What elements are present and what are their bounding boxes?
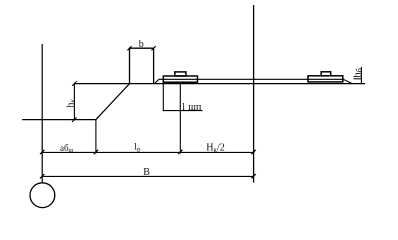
column (pole) (130, 48, 154, 83)
left slope into rail seat (154, 79, 159, 84)
svg-text:B: B (143, 167, 150, 178)
right reference vertical (360, 67, 362, 84)
extension line from slope foot (95, 120, 97, 154)
hk tick bottom (72, 117, 76, 121)
left rail head (175, 72, 186, 76)
left reference vertical line (41, 44, 43, 183)
dimension line 1 (42, 151, 253, 153)
dim1 tick at sleeper line (178, 150, 182, 154)
lower ground line (22, 119, 96, 121)
sleeper bracket left vertical (162, 82, 164, 111)
ballast slope (96, 84, 130, 120)
b dimension tick right (152, 46, 156, 50)
right rail head (321, 72, 331, 76)
dim1 tick at left line (40, 150, 44, 154)
b dimension tick left (127, 46, 131, 50)
track centre vertical line (253, 5, 255, 183)
right slope from rail seat (343, 79, 352, 84)
svg-text:b: b (139, 39, 144, 50)
circle (axis mark) (30, 183, 55, 208)
right rail base plate (308, 76, 343, 82)
dim1 tick at slope foot (94, 150, 98, 154)
hk dimension vertical (73, 83, 75, 120)
sleeper bracket underline (163, 110, 203, 112)
left rail base plate (163, 76, 197, 82)
dimB tick left (40, 174, 44, 178)
dimension line B (42, 175, 253, 177)
dimB tick right (251, 174, 255, 178)
rail seat line across sleepers (159, 78, 343, 80)
hk tick top (72, 81, 76, 85)
dim1 tick at centre line (251, 150, 255, 154)
h_b tick (354, 78, 362, 80)
sleeper centre vertical (179, 82, 181, 153)
main surface line (74, 83, 365, 85)
